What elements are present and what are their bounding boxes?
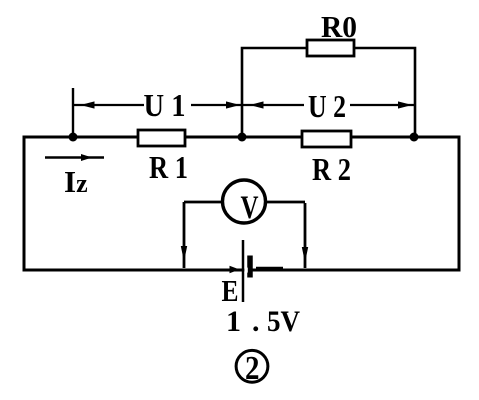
resistor R0 bbox=[307, 40, 354, 56]
svg-text:R0: R0 bbox=[321, 9, 357, 44]
voltage arrow U2 (double-headed measurement arrow) bbox=[243, 101, 414, 108]
node C (junction right, R0 branch right / main wire) bbox=[410, 133, 419, 142]
svg-text:U 1: U 1 bbox=[144, 87, 186, 123]
node B (junction middle, R0 branch left / main wire) bbox=[238, 133, 247, 142]
voltage arrow U1 (double-headed measurement arrow) bbox=[74, 101, 241, 108]
figure number 2 (circled) bbox=[236, 350, 268, 387]
wire R0 branch (left vertical, top wire, right vertical) bbox=[242, 48, 415, 137]
current arrow into battery (on bottom wire) bbox=[230, 266, 240, 273]
svg-text:U 2: U 2 bbox=[308, 88, 346, 124]
battery plate gap bbox=[244, 268, 247, 273]
node A (junction left tick / main wire) bbox=[69, 133, 78, 142]
svg-text:Iz: Iz bbox=[64, 164, 88, 199]
svg-text:E: E bbox=[222, 273, 239, 308]
voltmeter V bbox=[184, 180, 305, 226]
svg-text:R 1: R 1 bbox=[149, 149, 188, 185]
svg-text:2: 2 bbox=[245, 350, 260, 387]
resistor R1 bbox=[138, 130, 185, 146]
resistor R2 bbox=[302, 131, 351, 147]
svg-text:V: V bbox=[241, 190, 259, 226]
wire voltmeter left drop with down arrow bbox=[181, 202, 187, 268]
wire outer loop (main top wire, left, bottom, right) bbox=[24, 137, 459, 270]
svg-text:R 2: R 2 bbox=[312, 151, 351, 187]
current arrow Iz bbox=[45, 154, 104, 161]
battery E (long plate and short thick plate) bbox=[243, 240, 250, 302]
wire voltmeter right drop with down arrow bbox=[302, 203, 308, 268]
wire thick smudge right of battery bbox=[256, 267, 283, 271]
wire U1 left tick bbox=[72, 88, 74, 137]
